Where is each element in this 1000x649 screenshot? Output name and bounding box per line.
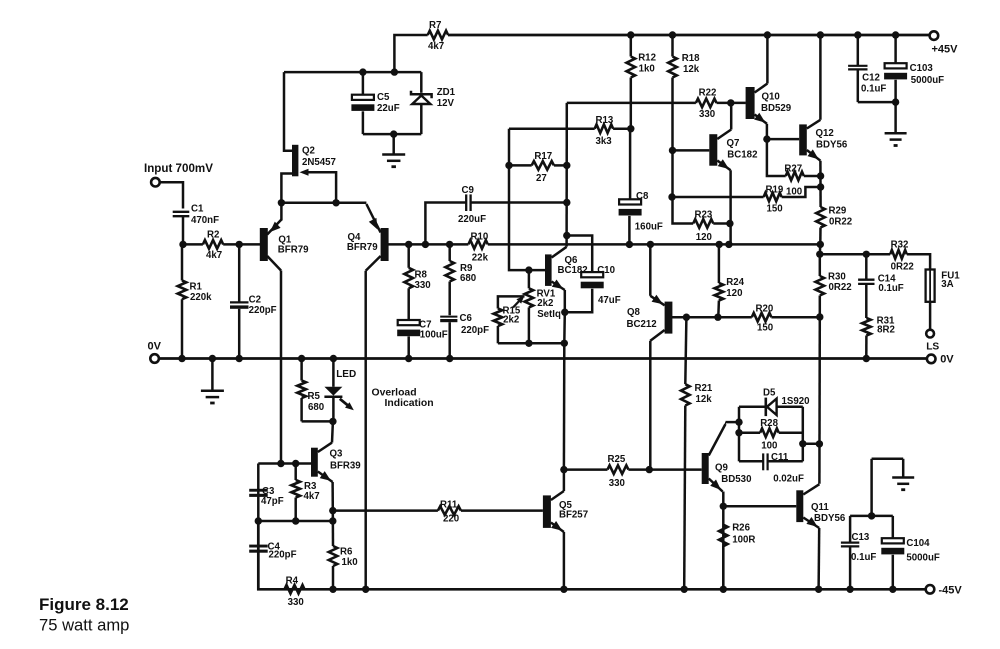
label R18 12k — [682, 53, 700, 75]
svg-text:C2: C2 — [249, 295, 261, 306]
svg-text:C10: C10 — [597, 265, 615, 276]
svg-text:0R22: 0R22 — [891, 262, 914, 273]
svg-text:330: 330 — [699, 109, 715, 120]
resistor R29 — [816, 207, 825, 248]
LS terminal — [926, 330, 934, 338]
resistor R31 — [862, 318, 871, 362]
svg-text:220k: 220k — [190, 292, 212, 303]
label C13 0.1uF — [851, 532, 876, 563]
wire main line Q4 base to output node — [388, 241, 820, 248]
label Q6 BC182 — [558, 255, 588, 276]
capacitor C11 — [739, 453, 803, 470]
label Q12 BDY56 — [816, 128, 848, 151]
potentiometer RV1 — [513, 270, 533, 347]
resistor R23 — [693, 219, 733, 228]
wire tail line Q1/Q4 emitters — [278, 199, 367, 206]
resistor R6 — [329, 546, 338, 593]
wire Q6 emitter vertical — [561, 309, 569, 470]
resistor R15 — [494, 296, 525, 343]
wire R3 bottom line — [255, 517, 337, 524]
svg-text:0V: 0V — [940, 354, 954, 366]
label C104 5000uF — [906, 538, 939, 564]
svg-text:220: 220 — [443, 514, 459, 525]
transistor Q6 — [545, 247, 567, 312]
label +45V — [932, 44, 959, 56]
label Q4 BFR79 — [347, 232, 378, 253]
transistor Q7 — [709, 103, 731, 245]
svg-text:Q11: Q11 — [811, 502, 829, 513]
resistor R25 — [608, 465, 629, 474]
svg-text:R11: R11 — [440, 499, 458, 510]
capacitor C104 — [881, 516, 904, 593]
svg-text:R17: R17 — [534, 151, 552, 162]
resistor R9 — [445, 244, 454, 315]
label R24 120 — [726, 277, 744, 299]
svg-text:C11: C11 — [771, 452, 789, 463]
label R4 330 — [286, 576, 304, 608]
svg-text:220pF: 220pF — [269, 550, 297, 561]
wire vertical R13-R17-Q6 base — [509, 129, 546, 274]
svg-text:R1: R1 — [190, 282, 203, 293]
label Q9 BD530 — [715, 463, 751, 486]
zener diode ZD1 — [411, 72, 432, 134]
label C6 220pF — [460, 313, 490, 336]
svg-text:220pF: 220pF — [461, 325, 489, 336]
transistor Q4 — [366, 204, 389, 271]
capacitor C6 — [440, 317, 457, 363]
figure caption — [39, 595, 129, 635]
label C11 0.02uF — [771, 452, 804, 485]
svg-text:22uF: 22uF — [377, 103, 400, 114]
+45V terminal — [930, 31, 939, 40]
svg-text:BC212: BC212 — [627, 319, 657, 330]
svg-text:R25: R25 — [608, 454, 626, 465]
svg-text:BD530: BD530 — [721, 474, 751, 485]
wire vertical B R22-Q6 collector — [563, 103, 570, 247]
label C4 220pF — [268, 542, 297, 561]
svg-text:120: 120 — [696, 232, 712, 243]
wire R1 top lead — [181, 244, 184, 280]
svg-text:Q7: Q7 — [727, 138, 740, 149]
label R23 120 — [695, 209, 713, 243]
resistor R32 — [890, 250, 930, 270]
wire -45V bottom rail — [258, 522, 925, 589]
capacitor C103 — [884, 31, 907, 102]
label R8 330 — [415, 270, 431, 292]
svg-text:R26: R26 — [732, 522, 750, 533]
svg-text:0R22: 0R22 — [829, 282, 852, 293]
resistor R24 — [715, 244, 724, 317]
label Q3 BFR39 — [330, 448, 362, 471]
svg-text:Q8: Q8 — [627, 307, 641, 318]
wire 0V rail — [155, 357, 932, 360]
svg-text:Q9: Q9 — [715, 463, 729, 474]
transistor Q3 — [311, 443, 333, 511]
wire Q8 base lead — [672, 316, 692, 319]
svg-text:Q12: Q12 — [816, 128, 834, 139]
wire R22 line — [567, 99, 746, 106]
svg-text:1k0: 1k0 — [639, 63, 655, 74]
svg-text:LED: LED — [336, 369, 356, 380]
wire C5-ZD1 top line — [284, 68, 421, 75]
label LED — [336, 369, 356, 380]
ground above C13 — [868, 459, 914, 520]
wire R2 left lead — [183, 243, 203, 246]
svg-text:12k: 12k — [683, 64, 700, 75]
LED emission arrow — [340, 399, 354, 411]
label C10 47uF — [597, 265, 620, 306]
wire Q7 base line — [669, 147, 710, 154]
label Q2 2N5457 — [302, 146, 336, 168]
svg-text:BFR39: BFR39 — [330, 461, 361, 472]
resistor R10 — [468, 240, 487, 249]
resistor R21 — [681, 317, 690, 593]
svg-text:160uF: 160uF — [635, 222, 663, 233]
wire C13-C104 top line — [850, 515, 893, 518]
wire output line B — [820, 251, 890, 258]
resistor R18 — [668, 31, 677, 150]
svg-text:0.1uF: 0.1uF — [861, 83, 886, 94]
svg-text:4k7: 4k7 — [428, 41, 444, 52]
svg-text:1k0: 1k0 — [342, 557, 358, 568]
label C1 470nF — [191, 204, 219, 227]
svg-text:0.1uF: 0.1uF — [878, 283, 903, 294]
label 0V right — [940, 354, 954, 366]
capacitor C3 — [249, 489, 268, 497]
svg-text:330: 330 — [288, 597, 304, 608]
label R6 1k0 — [340, 547, 358, 569]
transistor Q5 — [543, 466, 568, 593]
svg-text:BFR79: BFR79 — [278, 245, 309, 256]
svg-text:R21: R21 — [695, 383, 713, 394]
svg-text:R28: R28 — [760, 418, 778, 429]
svg-text:R22: R22 — [699, 88, 717, 99]
svg-text:4k7: 4k7 — [304, 491, 320, 502]
svg-text:BF257: BF257 — [559, 510, 588, 521]
label R20 150 — [756, 303, 774, 333]
svg-text:R2: R2 — [207, 230, 219, 241]
svg-text:100uF: 100uF — [420, 329, 448, 340]
wire R20 line — [683, 314, 752, 321]
0V terminal right — [927, 355, 936, 364]
capacitor C4 — [249, 545, 268, 553]
svg-text:4k7: 4k7 — [206, 250, 222, 261]
svg-text:Figure 8.12: Figure 8.12 — [39, 595, 129, 614]
svg-text:150: 150 — [767, 204, 783, 215]
transistor Q11 — [796, 484, 822, 593]
svg-text:BFR79: BFR79 — [347, 242, 378, 253]
wire R2 to Q1 base — [223, 241, 260, 248]
resistor R2 — [203, 240, 223, 249]
diode D5 — [739, 398, 803, 417]
svg-text:Indication: Indication — [385, 398, 434, 409]
svg-text:5000uF: 5000uF — [906, 553, 939, 564]
resistor R3 — [291, 464, 300, 525]
resistor R8 — [404, 244, 413, 320]
label R3 4k7 — [304, 481, 320, 502]
svg-text:0R22: 0R22 — [829, 217, 852, 228]
label R26 100R — [732, 522, 755, 545]
svg-text:5000uF: 5000uF — [911, 75, 944, 86]
svg-text:C13: C13 — [852, 532, 870, 543]
svg-text:0.1uF: 0.1uF — [851, 552, 876, 563]
label R9 680 — [460, 263, 476, 284]
label R27 100 — [783, 163, 807, 197]
svg-text:R4: R4 — [286, 576, 299, 587]
svg-text:R24: R24 — [726, 277, 744, 288]
wire R23 branch — [673, 150, 694, 223]
svg-text:D5: D5 — [763, 388, 776, 399]
label Q11 BDY56 — [811, 502, 846, 524]
label C103 5000uF — [910, 63, 945, 86]
svg-text:680: 680 — [460, 273, 476, 284]
svg-text:2k2: 2k2 — [537, 298, 553, 309]
wire +45V top rail — [448, 34, 934, 37]
capacitor C5 — [351, 72, 374, 134]
svg-text:R23: R23 — [695, 209, 713, 220]
wire R30 bottom to Q11 collector — [816, 317, 823, 484]
-45V terminal — [926, 585, 935, 594]
capacitor C8 — [619, 129, 642, 245]
capacitor C13 — [841, 516, 859, 593]
wire RV1/R15 bottom line — [498, 342, 564, 345]
svg-text:47pF: 47pF — [261, 496, 284, 507]
label R19 150 — [766, 185, 784, 215]
resistor R5 — [297, 355, 306, 422]
svg-text:27: 27 — [536, 173, 547, 184]
svg-text:120: 120 — [726, 288, 742, 299]
wire R25 line — [564, 466, 702, 473]
svg-text:LS: LS — [926, 341, 939, 352]
label R29 0R22 — [829, 206, 853, 228]
svg-text:R6: R6 — [340, 547, 353, 558]
transistor Q10 — [746, 31, 772, 143]
wire R11 line — [333, 509, 543, 512]
resistor R26 — [719, 525, 728, 590]
svg-text:BDY56: BDY56 — [816, 140, 848, 151]
label C14 0.1uF — [878, 273, 904, 294]
resistor R4 — [285, 585, 305, 594]
svg-text:Q10: Q10 — [762, 92, 780, 103]
svg-text:Input 700mV: Input 700mV — [144, 162, 213, 175]
wire R19 line — [668, 193, 763, 200]
wire C9 line — [422, 203, 567, 249]
svg-text:C1: C1 — [191, 204, 204, 215]
svg-text:C6: C6 — [460, 313, 473, 324]
transistor Q1 — [260, 203, 282, 271]
wire Q3 collector from LED — [331, 421, 334, 442]
label ZD1 12V — [437, 87, 456, 109]
svg-text:12V: 12V — [437, 98, 455, 109]
capacitor C14 — [858, 254, 874, 318]
label 0V left — [148, 341, 162, 353]
svg-text:75 watt amp: 75 watt amp — [39, 616, 129, 635]
resistor R12 — [627, 31, 636, 132]
resistor R1 — [178, 281, 187, 300]
svg-text:SetIq: SetIq — [537, 309, 561, 320]
svg-text:22k: 22k — [472, 253, 489, 264]
resistor R22 — [696, 99, 717, 108]
label C2 220pF — [249, 295, 277, 317]
svg-text:R18: R18 — [682, 53, 700, 64]
svg-text:R29: R29 — [829, 206, 847, 217]
transistor Q12 — [799, 31, 824, 160]
label Q1 BFR79 — [278, 235, 309, 256]
svg-text:1S920: 1S920 — [782, 396, 810, 407]
wire input to C1 — [160, 182, 183, 208]
wire Q3 emitter vertical — [329, 507, 336, 546]
label C8 160uF — [635, 191, 663, 233]
svg-text:0.02uF: 0.02uF — [773, 474, 804, 485]
svg-text:R20: R20 — [756, 303, 774, 314]
wire R1 to 0V — [178, 299, 185, 362]
svg-text:C104: C104 — [906, 538, 930, 549]
resistor R30 — [816, 254, 825, 320]
svg-text:100: 100 — [786, 186, 802, 197]
svg-text:2N5457: 2N5457 — [302, 157, 336, 168]
svg-text:Overload: Overload — [372, 387, 417, 398]
label C12 0.1uF — [861, 72, 886, 94]
resistor R27 — [786, 172, 821, 181]
svg-text:330: 330 — [609, 478, 625, 489]
wire Q1 collector down to Q3 base line — [280, 271, 283, 464]
wire left vertical C3/C4 — [257, 464, 260, 590]
capacitor C12 — [848, 31, 867, 102]
label R17 27 — [534, 151, 552, 184]
ground below ZD1 — [382, 134, 405, 167]
wire D5 box left side — [735, 407, 742, 462]
resistor R7 — [428, 31, 448, 40]
svg-text:C12: C12 — [862, 72, 880, 83]
svg-text:BDY56: BDY56 — [814, 513, 846, 524]
label C7 100uF — [419, 319, 448, 340]
wire R17 leads — [505, 162, 570, 169]
svg-text:3k3: 3k3 — [596, 136, 613, 147]
svg-text:R12: R12 — [638, 52, 656, 63]
resistor R13 — [595, 124, 613, 133]
wire Q4 collector down to -45V rail — [362, 271, 369, 593]
svg-text:C103: C103 — [910, 63, 934, 74]
svg-text:R5: R5 — [308, 391, 321, 402]
svg-text:150: 150 — [757, 322, 773, 333]
wire C3 top line — [258, 460, 311, 467]
transistor Q9 — [702, 422, 739, 593]
svg-text:0V: 0V — [148, 341, 162, 353]
label RV1 2k2 SetIq — [537, 289, 561, 321]
transistor Q2 JFET — [281, 72, 336, 203]
svg-text:R10: R10 — [471, 231, 489, 242]
capacitor C7 — [397, 320, 420, 362]
label C3 47pF — [261, 486, 284, 507]
svg-text:BD529: BD529 — [761, 103, 792, 114]
label LS — [926, 341, 939, 352]
label -45V — [939, 584, 963, 596]
label R1 220k — [190, 282, 213, 304]
label R2 4k7 — [206, 230, 222, 262]
svg-text:330: 330 — [415, 280, 431, 291]
label R11 220 — [440, 499, 459, 524]
label Q7 BC182 — [727, 138, 758, 161]
label D5 1S920 — [763, 388, 810, 408]
label Overload Indication — [372, 387, 434, 408]
wire Q12 emitter vertical — [817, 161, 824, 207]
label R7 4k7 — [428, 20, 444, 52]
label Q10 BD529 — [761, 92, 792, 115]
fuse FU1 — [926, 270, 935, 330]
label R25 330 — [608, 454, 626, 489]
label Q8 BC212 — [627, 307, 657, 330]
svg-text:C5: C5 — [377, 92, 390, 103]
wire output node column — [816, 244, 823, 258]
wire D5 box right side — [799, 407, 806, 462]
label Input 700mV — [144, 162, 213, 175]
0V terminal left — [150, 354, 159, 363]
svg-text:100R: 100R — [732, 534, 755, 545]
wire C1 to R2 node — [179, 216, 186, 248]
svg-text:100: 100 — [761, 441, 777, 452]
label R32 0R22 — [891, 240, 914, 273]
label Q5 BF257 — [559, 500, 588, 521]
svg-text:R30: R30 — [828, 272, 846, 283]
resistor R11 — [438, 506, 461, 515]
svg-text:C9: C9 — [462, 185, 475, 196]
capacitor C10 — [565, 236, 604, 313]
svg-text:3A: 3A — [941, 279, 953, 290]
svg-text:BC182: BC182 — [727, 150, 757, 161]
label R5 680 — [308, 391, 325, 413]
transistor Q8 — [650, 244, 672, 469]
input terminal — [151, 178, 160, 187]
resistor R20 — [752, 313, 820, 322]
label R13 3k3 — [596, 115, 614, 147]
label R30 0R22 — [828, 272, 852, 294]
label R28 100 — [760, 418, 778, 451]
ground symbol at 0V rail — [201, 355, 224, 403]
capacitor C9 — [466, 194, 470, 211]
svg-text:R8: R8 — [415, 270, 428, 281]
capacitor C2 — [230, 244, 249, 362]
wire R5-LED join — [302, 418, 337, 425]
svg-text:R27: R27 — [784, 163, 802, 174]
ground below C103 — [885, 102, 907, 145]
svg-text:2k2: 2k2 — [503, 315, 519, 326]
wire Q11 base line — [720, 503, 797, 510]
label C5 22uF — [377, 92, 400, 114]
wire R13 line — [509, 127, 631, 130]
svg-text:470nF: 470nF — [191, 215, 219, 226]
wire C5-ZD1 bottom line — [363, 130, 421, 137]
label R10 22k — [471, 231, 489, 263]
svg-text:R19: R19 — [766, 185, 784, 196]
svg-text:ZD1: ZD1 — [437, 87, 456, 98]
label C9 220uF — [458, 185, 486, 225]
svg-text:C8: C8 — [636, 191, 649, 202]
svg-text:47uF: 47uF — [598, 295, 621, 306]
resistor R19 — [764, 187, 821, 201]
svg-text:-45V: -45V — [939, 584, 963, 596]
svg-text:R13: R13 — [596, 115, 614, 126]
svg-text:+45V: +45V — [932, 44, 959, 56]
wire Q10 emitter to Q12 base — [767, 138, 799, 141]
wire C12-C103 bottom — [858, 98, 900, 105]
capacitor C1 — [173, 212, 190, 216]
svg-text:220pF: 220pF — [249, 305, 277, 316]
svg-text:12k: 12k — [696, 394, 713, 405]
label R31 8R2 — [877, 315, 895, 335]
wire R7 left lead — [394, 35, 427, 72]
svg-text:Q3: Q3 — [330, 448, 344, 459]
resistor R17 — [532, 161, 554, 170]
